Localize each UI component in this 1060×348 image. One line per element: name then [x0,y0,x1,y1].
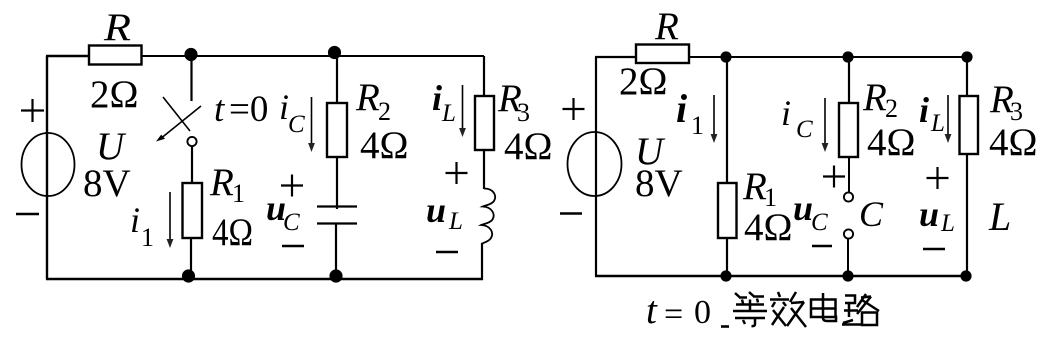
wire: left rail (source branch) [46,56,48,279]
wire: open terminal to bottom rail [847,239,849,276]
current arrow iL [947,95,949,136]
svg-text:=0: =0 [229,89,268,130]
svg-text:L: L [940,210,955,237]
wire: left rail (source branch) [595,57,597,276]
node: junction dot bottom of R1 branch [182,269,195,282]
svg-text:8V: 8V [635,162,683,205]
resistor R2 (box) [839,103,858,157]
plus sign of source U [563,98,585,120]
svg-text:R: R [103,6,131,49]
svg-text:3: 3 [517,98,530,127]
wire: R2 upper lead [336,56,338,103]
wire: capacitor to bottom rail [335,224,337,280]
svg-text:1: 1 [141,223,154,252]
node: junction dot bottom of R2 branch [329,269,342,282]
capacitor C bottom plate [317,222,357,224]
svg-text:4Ω: 4Ω [212,211,253,254]
minus sign of source U [16,213,39,215]
svg-text:u: u [919,194,939,234]
switch contact circle [187,137,196,146]
wire: bottom rail [46,278,483,281]
node: junction dot bottom of R2 branch [842,270,853,281]
wire: R2 to capacitor [336,157,338,209]
svg-text:i: i [781,93,791,133]
wire: R2 to open terminal [848,157,850,192]
svg-text:4Ω: 4Ω [867,121,915,164]
caption hanzi DENG (等) [733,292,767,326]
caption subscript minus [721,325,729,328]
wire: R2 upper lead [848,57,850,103]
wire: R1 to bottom rail [726,238,728,276]
svg-text:2Ω: 2Ω [619,60,667,103]
node: junction dot top of R1 branch [184,48,197,61]
svg-text:8V: 8V [83,162,131,205]
switch motion arrowhead [156,135,165,142]
wire: R1 to bottom rail [190,238,192,279]
voltage label uC plus [823,166,845,188]
caption hanzi DIAN (电) [811,293,836,321]
svg-text:L: L [930,110,945,137]
current arrow i1 [713,95,715,136]
switch motion arrow line [162,106,201,138]
plus sign of source U [21,99,44,122]
voltage label uL plus [927,167,949,189]
wire: R3 upper lead [966,57,968,96]
svg-text:i: i [919,90,929,130]
wire: R3 to inductor [483,150,485,189]
caption hanzi LU (路) [842,294,879,325]
wire: top rail left segment [595,56,637,58]
svg-text:R: R [355,76,380,119]
svg-text:i: i [676,86,687,131]
svg-text:4Ω: 4Ω [504,125,552,168]
svg-text:C: C [288,111,305,138]
voltage label uL plus [446,162,468,184]
node: junction dot top of R3 branch [961,51,972,62]
svg-text:R: R [862,76,887,119]
open terminal circle lower (capacitor replaced) [844,229,853,238]
svg-text:C: C [796,116,813,143]
svg-text:4Ω: 4Ω [360,124,408,167]
svg-text:R: R [209,161,234,204]
resistor R1 (box) [183,183,203,238]
svg-text:1: 1 [691,111,704,140]
current arrow iC [311,97,313,144]
resistor R3 (box) [960,96,979,154]
svg-text:C: C [859,194,884,234]
node: junction dot top of R2 branch [328,46,341,59]
resistor R (box) [89,46,142,65]
svg-text:2: 2 [885,94,898,123]
wire: inductor to bottom rail [481,243,483,280]
svg-text:i: i [432,78,442,118]
node: junction dot bottom of R3 branch [960,270,971,281]
wire: top rail to right [142,55,485,57]
minus sign of source U [560,212,582,214]
svg-text:=: = [664,296,683,333]
resistor R3 (box) [475,96,494,150]
resistor R (box) [636,45,689,64]
voltage source U circle [22,133,75,196]
wire: top rail to right [689,56,967,58]
svg-text:L: L [441,100,456,127]
current arrow i1 [169,192,171,241]
voltage label uC minus [282,245,304,247]
node: junction dot top of R2 branch [842,51,853,62]
svg-text:C: C [283,209,300,236]
switch blade (open) [163,97,190,131]
inductor L coil [481,189,495,244]
voltage label uL minus [436,251,458,253]
voltage label uC minus [812,245,832,247]
svg-text:R: R [654,5,679,48]
svg-text:C: C [811,209,828,236]
svg-text:L: L [988,194,1011,239]
wire: top rail left segment [46,55,90,57]
svg-text:t: t [646,289,658,332]
voltage source U circle [568,132,622,196]
svg-text:2Ω: 2Ω [90,73,138,116]
wire: bottom rail [595,275,967,277]
current arrow iL [462,85,464,130]
svg-text:4Ω: 4Ω [989,121,1037,164]
node: junction dot top of R1 branch [720,51,731,62]
wire: R3 upper lead [483,56,485,96]
svg-text:i: i [130,200,140,240]
wire: switch to R1 [191,147,193,184]
voltage label uC plus [281,175,303,197]
svg-text:L: L [448,208,463,235]
resistor R1 (box) [718,183,737,238]
svg-text:u: u [426,190,446,230]
svg-text:4Ω: 4Ω [744,206,792,249]
voltage label uL minus [923,248,945,250]
svg-text:t: t [214,89,226,130]
current arrow iC [824,98,826,145]
open terminal circle upper (capacitor replaced) [844,192,853,201]
svg-text:0: 0 [694,294,711,331]
svg-text:1: 1 [232,179,245,208]
resistor R2 (box) [327,103,347,157]
node: junction dot bottom of R1 branch [720,270,731,281]
capacitor C top plate [317,205,357,207]
wire: R1 upper lead [726,57,728,183]
caption hanzi XIAO (效) [770,292,806,327]
svg-text:2: 2 [378,97,391,126]
wire: switch upper lead [190,56,192,101]
wire: R3 to bottom rail [966,154,968,276]
